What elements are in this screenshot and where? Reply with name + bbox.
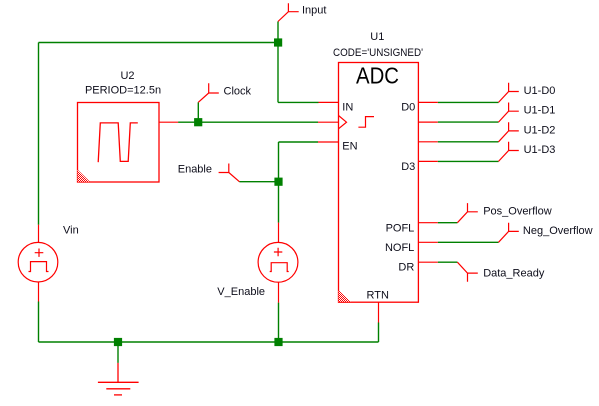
offpage connector Data_Ready xyxy=(457,262,477,282)
wire D1 xyxy=(438,121,499,123)
step symbol xyxy=(358,117,374,128)
wire Enable offpage horizontal xyxy=(239,181,278,183)
voltage source Vin xyxy=(18,225,58,302)
offpage connector U1-D3 xyxy=(499,142,519,162)
offpage connector U1-D2 xyxy=(499,122,519,142)
offpage connector U1-D1 xyxy=(499,103,519,123)
svg-text:U1-D3: U1-D3 xyxy=(524,144,556,156)
svg-text:CODE='UNSIGNED': CODE='UNSIGNED' xyxy=(333,47,423,59)
U1 hatch corner xyxy=(339,290,351,302)
svg-text:Clock: Clock xyxy=(224,85,252,97)
offpage connector U1-D0 xyxy=(499,83,519,103)
U2 hatch corner xyxy=(78,170,91,182)
offpage connector Input xyxy=(278,3,299,21)
voltage source V_Enable xyxy=(258,223,298,303)
U2 waveform xyxy=(98,123,138,162)
node junction Enable xyxy=(274,178,282,186)
svg-text:ADC: ADC xyxy=(356,63,399,89)
digital clock source U2 xyxy=(78,70,179,182)
ADC U1 xyxy=(318,31,438,323)
node junction ground xyxy=(114,338,122,346)
wire RTN green xyxy=(378,323,380,343)
svg-text:Neg_Overflow: Neg_Overflow xyxy=(523,225,593,237)
wire D3 xyxy=(438,160,499,162)
pin RTN xyxy=(378,302,380,322)
svg-text:U2: U2 xyxy=(120,70,134,82)
wire ground stub xyxy=(117,342,119,363)
svg-text:PERIOD=12.5n: PERIOD=12.5n xyxy=(85,85,161,97)
pin IN xyxy=(319,101,339,103)
svg-text:POFL: POFL xyxy=(386,223,415,235)
ground xyxy=(98,363,139,395)
pin D2 xyxy=(418,141,437,143)
node junction V_Enable bottom xyxy=(274,338,282,346)
svg-text:D3: D3 xyxy=(401,161,415,173)
svg-text:D0: D0 xyxy=(401,102,415,114)
wire D0 xyxy=(438,101,499,103)
svg-text:DR: DR xyxy=(398,261,414,273)
wire DR xyxy=(438,261,458,263)
pin POFL xyxy=(418,222,437,224)
wire EN horizontal xyxy=(279,141,319,143)
offpage connector Pos_Overflow xyxy=(457,203,477,223)
wire green below Vin xyxy=(38,302,40,343)
offpage connector Enable xyxy=(219,164,240,182)
pin D1 xyxy=(418,121,437,123)
wire D2 xyxy=(438,141,499,143)
pin CLK chevron xyxy=(318,121,339,123)
svg-text:U1-D2: U1-D2 xyxy=(524,124,556,136)
pin D3 xyxy=(418,160,437,162)
offpage connector Neg_Overflow xyxy=(499,223,519,243)
wire NOFL xyxy=(438,241,499,243)
node junction Clock xyxy=(194,118,202,126)
wire IN horizontal xyxy=(278,101,319,103)
node junction Input xyxy=(274,38,282,46)
wire POFL xyxy=(438,222,458,224)
svg-text:Enable: Enable xyxy=(178,164,212,176)
wire top horizontal net Input xyxy=(39,42,279,44)
svg-text:Pos_Overflow: Pos_Overflow xyxy=(483,205,552,217)
pin NOFL xyxy=(418,241,437,243)
pin DR xyxy=(418,261,437,263)
svg-text:Input: Input xyxy=(302,4,326,16)
svg-text:RTN: RTN xyxy=(366,290,388,302)
wire bottom horizontal ground net xyxy=(39,341,379,343)
U2 output pin xyxy=(159,121,178,123)
pin D0 xyxy=(418,101,437,103)
svg-text:U1: U1 xyxy=(370,31,384,43)
wire clock net from U2 to U1 xyxy=(178,121,318,123)
svg-text:NOFL: NOFL xyxy=(385,242,414,254)
wire Input vertical drop to IN xyxy=(277,22,279,103)
svg-text:Vin: Vin xyxy=(63,225,79,237)
wire below V_Enable xyxy=(278,303,280,342)
wire EN vertical down to V_Enable xyxy=(278,142,280,223)
wire clock stub up to offpage xyxy=(197,102,199,122)
svg-text:IN: IN xyxy=(342,102,353,114)
svg-text:Data_Ready: Data_Ready xyxy=(483,268,545,280)
offpage connector Clock xyxy=(198,83,219,102)
svg-text:V_Enable: V_Enable xyxy=(217,286,265,298)
svg-text:EN: EN xyxy=(342,141,357,153)
wire left vertical from top corner to Vin xyxy=(38,43,40,225)
svg-text:U1-D0: U1-D0 xyxy=(524,85,556,97)
svg-text:U1-D1: U1-D1 xyxy=(524,105,556,117)
pin EN xyxy=(318,141,339,143)
